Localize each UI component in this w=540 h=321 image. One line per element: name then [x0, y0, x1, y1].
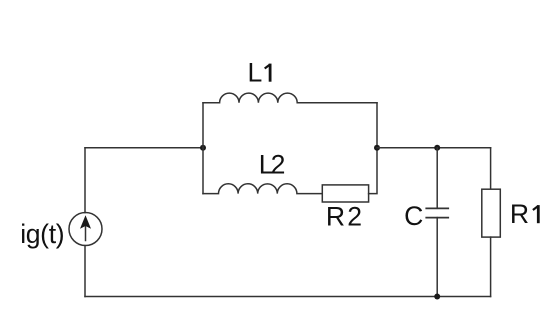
wire top-left horizontal (source to node A)	[85, 147, 203, 149]
wire capacitor top lead	[436, 148, 438, 209]
inductor L2	[203, 184, 322, 194]
node B junction dot	[374, 145, 380, 151]
label L1	[248, 58, 271, 88]
svg-text:L: L	[248, 58, 263, 88]
label R1	[510, 199, 538, 229]
wire left rail lower (current source to bottom rail)	[84, 246, 86, 297]
wire L1 branch left riser	[202, 103, 204, 148]
wire R1 bottom lead	[490, 237, 492, 296]
wire R1 top lead	[490, 148, 492, 189]
wire left rail upper (corner down to current source)	[84, 148, 86, 213]
svg-text:L2: L2	[259, 150, 285, 180]
wire top rail right (node B to R1 corner)	[377, 147, 491, 149]
svg-text:C: C	[404, 201, 423, 231]
node C-top junction dot	[434, 145, 440, 151]
current source arrow shaft	[85, 222, 87, 241]
svg-text:R2: R2	[326, 201, 364, 231]
node C-bottom junction dot	[434, 294, 440, 300]
svg-text:ig(t): ig(t)	[20, 219, 64, 249]
wire L2 branch left drop	[202, 148, 204, 194]
wire capacitor bottom lead	[436, 218, 438, 297]
wire L1 branch right riser	[376, 103, 378, 148]
current source arrowhead	[80, 215, 91, 229]
resistor R2 body	[322, 185, 368, 202]
inductor L1	[203, 93, 377, 103]
capacitor C plates	[426, 208, 448, 217]
wire bottom rail	[85, 296, 491, 298]
node A junction dot	[200, 145, 206, 151]
current source ig(t) circle	[69, 213, 102, 246]
wire R2 to node B	[369, 148, 377, 194]
svg-text:R: R	[510, 199, 529, 229]
resistor R1 body	[482, 189, 501, 237]
